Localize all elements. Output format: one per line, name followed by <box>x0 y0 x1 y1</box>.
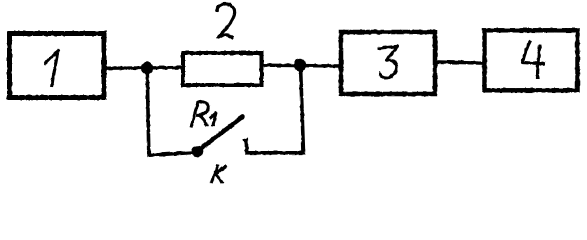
wire resistor to node B <box>261 63 341 67</box>
block 4 <box>485 30 578 90</box>
wire bottom right <box>245 151 305 155</box>
node A junction dot <box>141 62 153 74</box>
switch contact stub <box>244 140 247 153</box>
label 1 <box>45 51 59 88</box>
label 4 <box>523 41 546 80</box>
resistor 2 <box>183 53 262 85</box>
label K <box>211 165 227 184</box>
wire bottom left to switch <box>147 152 197 155</box>
switch K pivot dot <box>192 146 204 158</box>
block 1 <box>10 34 105 98</box>
wire node A down <box>147 68 149 154</box>
block 3 <box>341 32 435 94</box>
wire block3 to block4 <box>435 62 484 63</box>
label 3 <box>378 46 398 78</box>
wire node B down <box>301 65 304 153</box>
node B junction dot <box>294 59 306 71</box>
label 2 <box>217 4 235 39</box>
label R1 <box>191 102 216 128</box>
switch blade <box>199 117 243 150</box>
wire block1 to node A <box>106 66 183 70</box>
